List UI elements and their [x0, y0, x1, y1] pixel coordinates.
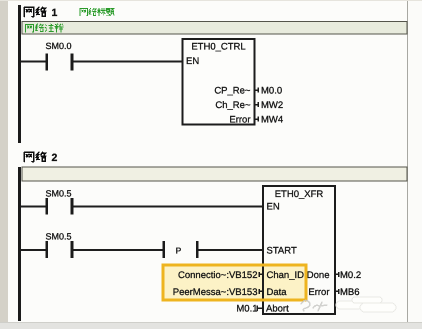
tick M0.1 to Abort: [257, 306, 263, 311]
pin Ch_Re~ (U1 output): [215, 100, 251, 111]
wire contact SM0.5 to block EN (rung 1): [73, 205, 263, 207]
pin Done (U2 output): [307, 270, 330, 281]
left power rail network 2: [18, 167, 21, 321]
pin CP_Re~ (U1 output): [214, 86, 251, 97]
svg-text:MW2: MW2: [261, 100, 283, 111]
svg-text:Error: Error: [308, 287, 329, 298]
wire rail to contact SM0.5 rung 2: [21, 249, 46, 251]
operand M0.1: [236, 304, 257, 315]
tick Error to MW4: [255, 117, 259, 122]
contact SM0.0 label: [45, 41, 71, 51]
tick CP_Re~ to M0.0: [255, 88, 259, 93]
svg-text:2: 2: [52, 152, 58, 164]
watermark smudge: [301, 297, 396, 312]
wire SM0.5 to P contact: [73, 249, 162, 251]
svg-text:M0.0: M0.0: [261, 86, 282, 97]
contact SM0.5 label (rung 2): [45, 231, 71, 241]
tick Ch_Re~ to MW2: [255, 102, 259, 107]
svg-text:Abort: Abort: [266, 304, 289, 315]
operand M0.2: [340, 270, 361, 281]
pin EN (U1): [186, 56, 199, 67]
operand MW2: [261, 100, 283, 111]
operand MB6: [340, 287, 360, 298]
svg-text:SM0.5: SM0.5: [45, 188, 71, 198]
pin Chan_ID (U2): [267, 270, 305, 281]
svg-text:1: 1: [52, 7, 58, 19]
svg-text:P: P: [176, 245, 182, 255]
svg-text:PeerMessa~:VB153: PeerMessa~:VB153: [173, 287, 258, 298]
contact SM0.5 label (rung 1): [45, 188, 71, 198]
highlight box border (yellow annotation): [163, 265, 306, 300]
svg-text:MW4: MW4: [261, 115, 283, 126]
network 1 title text 网络标题 (green): [80, 8, 114, 15]
svg-text:CP_Re~: CP_Re~: [214, 86, 251, 97]
operand Connectio~:VB152: [178, 270, 258, 281]
network 2 comment box (empty): [22, 167, 407, 181]
operand MW4: [261, 115, 283, 126]
wire P contact to block START: [198, 249, 263, 251]
svg-text:EN: EN: [186, 56, 199, 67]
network 2 header label 网络 2: [24, 152, 46, 161]
pin Error (U2 output): [308, 287, 329, 298]
svg-text:M0.2: M0.2: [340, 270, 361, 281]
svg-text:MB6: MB6: [340, 287, 360, 298]
svg-text:Done: Done: [307, 270, 330, 281]
pin Abort (U2): [266, 304, 289, 315]
svg-text:SM0.0: SM0.0: [45, 41, 71, 51]
contact SM0.5 rung 2 (normally open): [46, 241, 74, 258]
contact SM0.5 rung 1 (normally open): [46, 198, 74, 215]
pin START (U2): [267, 245, 297, 256]
network 1 comment text 网络注释 (green): [26, 24, 63, 32]
network 1 header label 网络 1: [24, 7, 46, 16]
operand M0.0: [261, 86, 282, 97]
pin EN (U2): [267, 202, 280, 213]
svg-text:EN: EN: [267, 202, 280, 213]
tick Done to M0.2: [335, 272, 340, 277]
contact SM0.0 (normally open): [46, 54, 74, 71]
pin Error (U1 output): [229, 115, 250, 126]
tick PeerMessa~ to Data: [258, 289, 264, 294]
svg-text:Chan_ID: Chan_ID: [267, 270, 305, 281]
contact P (positive edge): [163, 241, 199, 258]
svg-text:Ch_Re~: Ch_Re~: [215, 100, 251, 111]
svg-text:Connectio~:VB152: Connectio~:VB152: [178, 270, 258, 281]
network 1 comment box: [22, 22, 407, 35]
highlight box fill (yellow annotation): [163, 265, 306, 300]
svg-text:START: START: [267, 245, 297, 256]
svg-text:Data: Data: [267, 287, 288, 298]
function block U2 ETH0_XFR: [263, 186, 335, 314]
svg-text:ETH0_XFR: ETH0_XFR: [275, 189, 324, 200]
operand PeerMessa~:VB153: [173, 287, 258, 298]
left power rail network 1: [18, 5, 21, 143]
wire rail to contact SM0.5 rung 1: [21, 205, 46, 207]
tick Connectio~ to Chan_ID: [258, 272, 264, 277]
wire rail to contact SM0.0: [21, 61, 46, 63]
pin Data (U2): [267, 287, 288, 298]
tick Error to MB6: [335, 289, 340, 294]
svg-text:ETH0_CTRL: ETH0_CTRL: [191, 42, 245, 53]
svg-text:Error: Error: [229, 115, 250, 126]
svg-text:SM0.5: SM0.5: [45, 231, 71, 241]
function block U1 ETH0_CTRL: [183, 39, 255, 124]
svg-text:M0.1: M0.1: [236, 304, 257, 315]
wire contact SM0.0 to block EN: [73, 61, 182, 63]
